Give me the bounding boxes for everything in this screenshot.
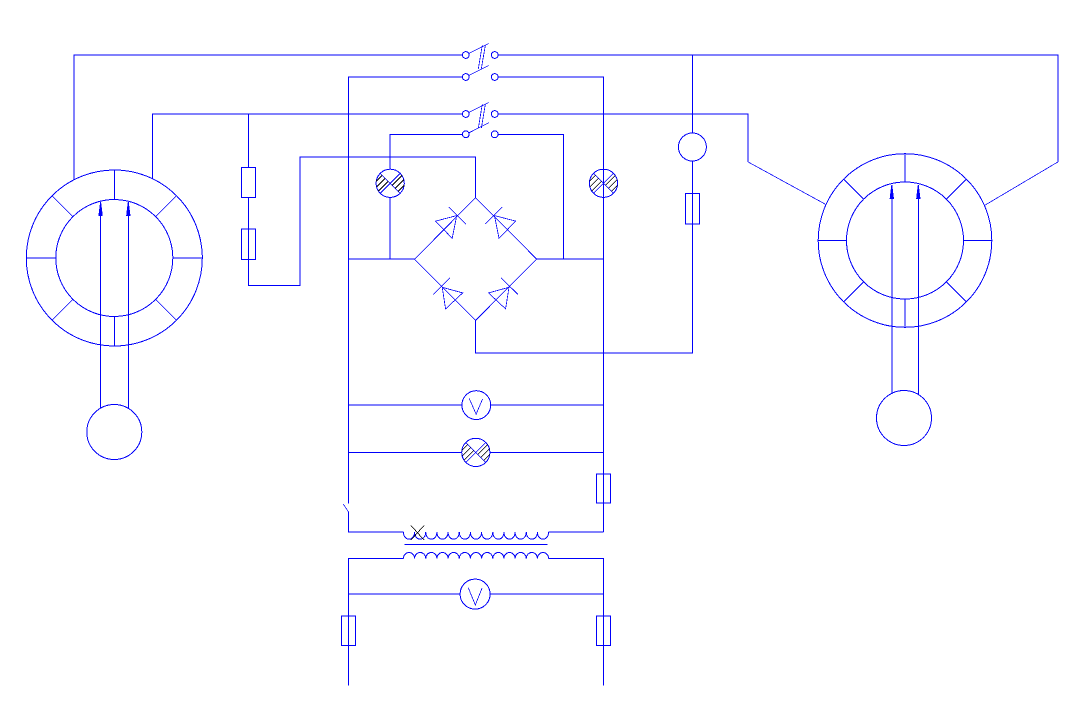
wire row1 left: top bus to switch S1 pole a <box>74 55 462 180</box>
switch S2 pole a contacts <box>462 111 469 118</box>
machine B2 rotor lines <box>891 186 893 394</box>
wire lamp HL1 to bridge left bus <box>389 197 391 259</box>
fuse FU5 <box>597 616 611 646</box>
switch S1 link bar <box>478 45 482 69</box>
wire row2 right: S1b to right column <box>498 77 603 169</box>
lamp HL1 <box>376 169 404 197</box>
wire secondary left lead down <box>349 559 404 686</box>
diode VD1 <box>436 216 457 239</box>
wire voltmeter PV1 row <box>349 404 462 406</box>
wire right column through lamp down to primary <box>603 169 605 532</box>
switch S2 pole b blade <box>468 123 489 133</box>
machine B1 handwheel <box>87 405 142 460</box>
diode VD2 <box>495 216 516 239</box>
wire primary right lead <box>549 531 604 533</box>
wire row2 left: S1 pole b to left column <box>349 77 463 503</box>
machine B1 outer ring <box>26 170 202 346</box>
switch S1 pole a contacts <box>462 52 469 59</box>
fuse FU1 <box>242 229 256 260</box>
wire bridge left bus <box>349 258 415 260</box>
transformer T1 secondary winding <box>403 553 548 559</box>
switch S1 pole b blade <box>468 65 489 75</box>
wire secondary right lead down <box>549 559 604 686</box>
machine B2 handwheel <box>877 391 932 446</box>
wire resistor column drop <box>248 114 250 167</box>
diode VD3 <box>442 287 463 309</box>
wire row4 left: lamp HL1 column to S2 pole b <box>390 134 462 169</box>
switch S2 link bar <box>478 104 482 128</box>
machine B2 outer ring <box>818 154 992 328</box>
indicator circle HA1 <box>678 133 706 161</box>
voltmeter PV1 <box>462 391 491 420</box>
wire voltmeter PV2 row <box>349 593 461 595</box>
wire row1 right: switch S1a to top-right corner <box>498 55 1058 162</box>
lamp HL2 <box>589 169 617 197</box>
machine B1 rotor lines <box>100 204 102 409</box>
switch S2 pole a blade <box>468 102 489 112</box>
voltmeter PV2 <box>460 579 490 609</box>
wire row3 left: machine B1 lead to S2 pole a <box>153 114 463 179</box>
machine B1 rotor arrows <box>99 202 102 215</box>
transformer T1 primary winding <box>403 532 548 539</box>
fuse FU3 <box>597 474 611 503</box>
switch S2 pole b contacts <box>462 131 469 138</box>
machine B1 inner ring <box>56 200 173 317</box>
wire resistor to fuse to bottom bend <box>249 157 476 286</box>
switch S1 pole b contacts <box>462 74 469 81</box>
diode VD4 <box>489 287 510 309</box>
machine B2 inner ring <box>847 182 964 299</box>
wire left column lower to transformer primary <box>349 512 404 532</box>
resistor R1 <box>242 167 256 197</box>
machine B1 spokes <box>26 170 202 346</box>
wire lamp HL3 row <box>349 451 462 453</box>
machine B2 spokes <box>818 154 992 328</box>
wire bridge right bus <box>537 258 604 260</box>
machine B2 rotor arrows <box>890 185 893 198</box>
wire top bus drop to indicator circle <box>691 55 693 133</box>
wire bridge bottom output <box>476 161 693 353</box>
bridge rectifier diamond <box>414 198 536 321</box>
switch S1 pole a blade <box>468 43 489 53</box>
wire row4 right: S2b down to bridge right bus <box>498 134 563 259</box>
break tick <box>343 504 348 512</box>
transformer T1 core <box>404 544 547 546</box>
transformer T1 polarity cross <box>411 526 424 541</box>
fuse FU4 <box>342 616 356 646</box>
fuse FU2 <box>685 194 699 225</box>
wire row3 right: S2a to right machine diagonal <box>498 114 748 162</box>
lamp HL3 <box>462 438 490 466</box>
